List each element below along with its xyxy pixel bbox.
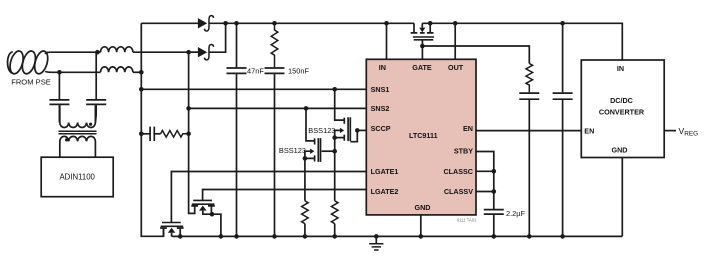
capacitor 150nF (265, 67, 285, 69)
transformer T1 primary winding (60, 105, 96, 127)
svg-text:CLASSV: CLASSV (444, 187, 473, 196)
svg-text:150nF: 150nF (288, 66, 309, 75)
node line2 top (186, 50, 191, 55)
wire top rail mid (226, 22, 414, 24)
wire CLASSC (476, 170, 494, 172)
junction R2/GND (332, 234, 337, 239)
wire top rail left (141, 22, 198, 24)
capacitor 2.2uF (493, 171, 495, 209)
node SNS1/Q1 drain (332, 87, 337, 92)
node line1 row2 (139, 70, 144, 75)
junction 150nF/GND (272, 234, 277, 239)
snubber resistor (line1-line2) (161, 131, 189, 138)
ground symbol (375, 236, 377, 243)
svg-text:IN: IN (617, 64, 624, 73)
node snubber right (186, 132, 191, 137)
wire SNS1 (141, 88, 366, 90)
svg-text:LTC9111: LTC9111 (409, 131, 438, 140)
wire line2 vertical (189, 52, 195, 213)
twisted pair FROM PSE (8, 50, 60, 76)
wire CLASSV (476, 191, 494, 193)
diode D1 schottky (198, 16, 226, 31)
node M1 gate (420, 44, 425, 49)
node D2 join (223, 21, 228, 26)
transistor Q3 (right low-side FET) (191, 200, 223, 238)
MOSFET M1 (hot swap pass FET) (411, 21, 434, 59)
pin IC GND wire (420, 215, 422, 237)
capacitor C-line2 (95, 52, 97, 99)
node snubber left (139, 132, 144, 137)
svg-text:BSS123: BSS123 (279, 146, 306, 155)
node C-out tap (560, 21, 565, 26)
junction 2.2uF/GND (492, 234, 497, 239)
junction IC-GND/GND (419, 234, 424, 239)
wire DCDC GND (621, 158, 623, 237)
node OUT tap (453, 21, 458, 26)
diode D2 schottky (189, 23, 226, 60)
node cap2 tap (95, 50, 100, 55)
wire LGATE1 (171, 172, 366, 223)
svg-text:STBY: STBY (454, 147, 473, 156)
node IN tap (384, 21, 389, 26)
wire top pair line (row1) (51, 51, 101, 53)
wire SCCP (357, 129, 366, 131)
node SNS2/line2 (186, 106, 191, 111)
resistor R-150nF (271, 23, 278, 67)
capacitor C-out (562, 23, 564, 92)
wire row2 to line1 (133, 71, 141, 73)
svg-text:LGATE2: LGATE2 (371, 187, 399, 196)
svg-text:SNS2: SNS2 (371, 104, 390, 113)
svg-text:BSS123: BSS123 (308, 126, 335, 135)
resistor R-gate (526, 64, 533, 93)
svg-text:DC/DC: DC/DC (610, 96, 633, 105)
node SNS1/line1 (139, 87, 144, 92)
wire row1 to diode D2 anode (133, 51, 198, 53)
pin OUT wire (454, 23, 456, 59)
svg-text:9111 TA01: 9111 TA01 (457, 218, 477, 223)
resistor R1 (302, 201, 309, 224)
node cap1 tap (57, 70, 62, 75)
inductor L1 (101, 47, 133, 52)
wire LGATE2 (203, 190, 367, 201)
svg-text:CLASSC: CLASSC (443, 167, 473, 176)
junction R1/GND (303, 234, 308, 239)
svg-text:LGATE1: LGATE1 (371, 167, 399, 176)
svg-text:SCCP: SCCP (371, 124, 391, 133)
wire line1 vertical (141, 23, 163, 236)
node 150nF tap (272, 21, 277, 26)
svg-text:GATE: GATE (412, 63, 432, 72)
phase dot secondary (65, 138, 68, 141)
wire VREG (664, 130, 676, 132)
svg-text:IN: IN (379, 63, 386, 72)
resistor R2 (331, 201, 338, 224)
wire Q2 source to R1 (304, 158, 306, 200)
junction 47nF/GND (234, 234, 239, 239)
transistor Q2 BSS123 (lower) (303, 108, 337, 161)
svg-text:OUT: OUT (448, 63, 464, 72)
svg-text:SNS1: SNS1 (371, 85, 390, 94)
DC/DC converter box (581, 60, 664, 158)
snubber capacitor (line1-line2) (141, 133, 150, 135)
junction ground-symbol/GND (374, 234, 379, 239)
transistor Q4 (left low-side FET) (160, 223, 184, 239)
wire EN (476, 130, 581, 132)
junction C-out/GND (560, 234, 565, 239)
ground rail (172, 235, 623, 237)
IC LTC9111 (366, 59, 476, 215)
svg-text:2.2µF: 2.2µF (506, 209, 526, 218)
wire SNS2 (189, 107, 367, 109)
node 47nF tap (234, 21, 239, 26)
svg-text:EN: EN (463, 124, 473, 133)
svg-text:GND: GND (415, 203, 431, 212)
capacitor 47nF (236, 23, 238, 67)
capacitor C-line1 (58, 72, 60, 99)
inductor L2 (101, 67, 133, 72)
svg-text:ADIN1100: ADIN1100 (59, 172, 95, 181)
wire STBY (476, 152, 494, 172)
svg-text:GND: GND (612, 146, 628, 155)
ADIN1100 box (41, 157, 113, 197)
junction gate-RC/GND (527, 234, 532, 239)
wire gate RC (422, 46, 529, 64)
junction CLASSV (492, 189, 497, 194)
transformer T1 core (59, 131, 97, 134)
capacitor C-gate (519, 92, 539, 94)
pin IN wire (386, 23, 388, 59)
wire bottom pair line (row2) (59, 71, 100, 73)
wire top rail right (422, 23, 622, 60)
node SNS2/Q2 drain (304, 106, 309, 111)
svg-text:EN: EN (584, 126, 594, 135)
transistor Q1 BSS123 (upper) (332, 89, 359, 141)
transformer T1 secondary winding (60, 136, 96, 157)
phase dot primary (89, 123, 92, 126)
svg-text:CONVERTER: CONVERTER (599, 107, 645, 116)
wire Q1 source to R2 (334, 138, 336, 201)
svg-text:VREG: VREG (679, 126, 699, 137)
junction STBY/CLASSC (492, 169, 497, 174)
svg-text:47nF: 47nF (247, 66, 264, 75)
svg-text:FROM PSE: FROM PSE (11, 78, 51, 87)
